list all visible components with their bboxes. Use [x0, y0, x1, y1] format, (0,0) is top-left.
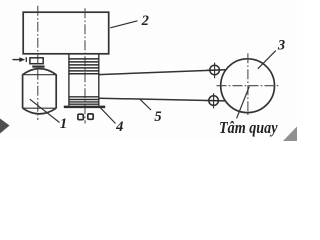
bolt bottom (circle with cross) [206, 93, 221, 108]
svg-text:5: 5 [154, 109, 161, 125]
rotating drum 3 (big circle) [221, 59, 275, 113]
foot nut right [88, 114, 93, 119]
centerline of column (vertical dash-dot) [84, 8, 86, 123]
svg-text:4: 4 [115, 119, 123, 135]
column bottom flange [64, 106, 105, 109]
leader line to label 2 [110, 21, 137, 28]
leader line to label 3 [258, 51, 276, 69]
drum vertical centerline [247, 53, 249, 116]
column bottom fin stack [69, 97, 99, 104]
flask 1 (vessel) [23, 69, 57, 114]
inlet arrow [13, 57, 27, 62]
leader line to label 4 [100, 107, 116, 123]
leader line to label 1 [30, 99, 60, 122]
drum horizontal centerline [217, 85, 279, 87]
svg-text:3: 3 [277, 37, 285, 53]
tank body (upper rectangle) U2 [23, 12, 109, 54]
leader line to label 5 [140, 99, 152, 110]
arm bottom line 5 [99, 98, 225, 101]
flask neck flange [32, 65, 44, 67]
column 4 left edge [68, 54, 70, 106]
arm top line 5 [99, 70, 226, 75]
svg-text:1: 1 [60, 116, 67, 132]
bolt top (circle with cross) [207, 63, 222, 79]
scan artifact bottom-right corner [283, 127, 297, 142]
foot nut left [78, 114, 83, 120]
svg-text:Tâm quay: Tâm quay [219, 118, 278, 137]
leader line from drum center to Tam quay text [237, 87, 250, 119]
column 4 right edge [98, 54, 100, 106]
valve box V1 [30, 58, 43, 64]
svg-text:2: 2 [141, 13, 149, 29]
scan artifact bottom-left corner [0, 119, 10, 134]
column top fin stack [69, 59, 99, 74]
centerline of flask (vertical dash-dot) [37, 6, 39, 120]
